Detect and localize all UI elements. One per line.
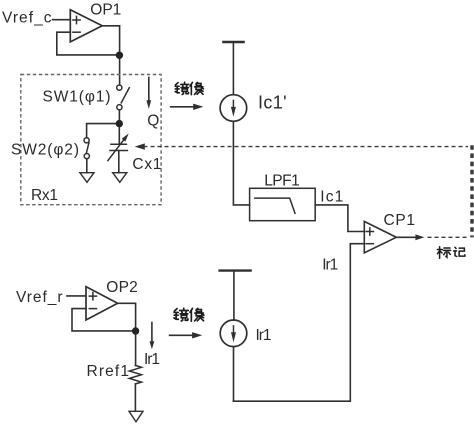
svg-text:Ic1': Ic1' — [258, 93, 287, 113]
svg-text:Ir1: Ir1 — [256, 327, 272, 344]
svg-text:Ir1: Ir1 — [144, 351, 160, 368]
svg-text:Ic1: Ic1 — [320, 188, 343, 205]
svg-text:Vref_c: Vref_c — [2, 9, 52, 26]
svg-text:Ir1: Ir1 — [322, 256, 338, 273]
svg-text:LPF1: LPF1 — [264, 172, 300, 189]
svg-text:SW1(φ1): SW1(φ1) — [43, 88, 111, 105]
svg-text:Cx1: Cx1 — [132, 156, 161, 173]
svg-text:Vref_r: Vref_r — [16, 289, 63, 306]
svg-text:Rx1: Rx1 — [31, 187, 58, 204]
svg-text:Rref1: Rref1 — [87, 363, 130, 380]
svg-text:CP1: CP1 — [384, 212, 416, 229]
svg-text:OP2: OP2 — [106, 279, 138, 296]
svg-text:SW2(φ2): SW2(φ2) — [11, 141, 79, 158]
svg-text:Q: Q — [147, 112, 159, 129]
svg-text:OP1: OP1 — [90, 1, 121, 18]
